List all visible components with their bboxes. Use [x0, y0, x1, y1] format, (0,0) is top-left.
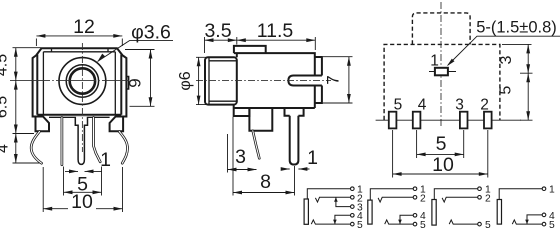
svg-text:5: 5 — [485, 220, 491, 229]
svg-text:3: 3 — [235, 146, 246, 168]
svg-text:2: 2 — [480, 97, 489, 114]
svg-text:3: 3 — [455, 97, 464, 114]
svg-text:1: 1 — [100, 149, 111, 171]
svg-text:5: 5 — [436, 133, 447, 155]
svg-text:φ6: φ6 — [177, 71, 194, 90]
svg-text:9: 9 — [126, 78, 145, 87]
svg-text:3: 3 — [498, 55, 515, 64]
svg-text:5-(1.5±0.8): 5-(1.5±0.8) — [476, 19, 557, 37]
svg-text:10: 10 — [432, 154, 454, 176]
svg-text:8: 8 — [260, 171, 271, 193]
svg-text:11.5: 11.5 — [257, 20, 294, 42]
svg-text:3.5: 3.5 — [204, 20, 231, 42]
svg-text:1: 1 — [430, 53, 439, 70]
svg-text:5: 5 — [420, 220, 426, 229]
svg-text:10: 10 — [71, 191, 93, 213]
svg-text:6.5: 6.5 — [0, 96, 11, 118]
svg-text:2: 2 — [485, 193, 491, 204]
svg-text:5: 5 — [357, 220, 363, 229]
svg-text:1: 1 — [549, 185, 555, 196]
svg-text:4: 4 — [0, 144, 12, 153]
svg-text:4.5: 4.5 — [0, 54, 11, 76]
svg-text:5: 5 — [549, 220, 555, 229]
svg-text:5: 5 — [497, 86, 514, 95]
svg-text:φ3.6: φ3.6 — [131, 22, 171, 44]
svg-text:4: 4 — [418, 97, 427, 114]
svg-text:5: 5 — [394, 97, 403, 114]
svg-text:7: 7 — [324, 75, 343, 84]
svg-text:2: 2 — [420, 193, 426, 204]
svg-text:12: 12 — [73, 16, 95, 38]
svg-text:1: 1 — [307, 147, 318, 169]
